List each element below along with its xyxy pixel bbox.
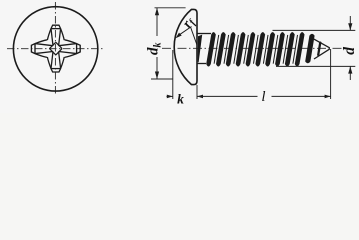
d arrows bbox=[348, 23, 352, 73]
head circle bbox=[13, 7, 97, 91]
k right extension line bbox=[196, 85, 198, 99]
d bottom extension line bbox=[276, 65, 355, 67]
svg-text:dk: dk bbox=[146, 43, 164, 56]
recess arm right bbox=[59, 40, 80, 58]
d top extension line bbox=[273, 29, 356, 31]
l dimension line bbox=[197, 95, 258, 97]
cone tip bbox=[313, 38, 330, 59]
recess side-view line bbox=[191, 27, 198, 45]
thread root line 4 bbox=[244, 35, 249, 64]
thread root line 2 bbox=[224, 35, 229, 64]
d_k top extension line bbox=[155, 7, 186, 9]
svg-text:l: l bbox=[261, 89, 265, 105]
thread crest stripe 8 bbox=[275, 32, 285, 66]
recess center diamond bbox=[50, 42, 63, 55]
phillips recess bbox=[31, 25, 80, 72]
thread: shank top/bottom edges bbox=[197, 34, 211, 64]
l right extension line bbox=[330, 49, 332, 99]
thread root line 3 bbox=[234, 35, 239, 64]
leader arrow r_f bbox=[176, 27, 192, 39]
d_k bottom extension line bbox=[151, 78, 173, 80]
thread crests and stripes bbox=[198, 32, 322, 66]
svg-text:d: d bbox=[341, 47, 358, 55]
centerline horizontal bbox=[7, 48, 105, 50]
thread crest stripe 3 bbox=[226, 32, 236, 66]
recess arm bottom bbox=[47, 51, 64, 72]
l right arrow bbox=[325, 95, 331, 99]
thread root line 1 bbox=[214, 35, 219, 64]
thread crest stripe 11 bbox=[305, 34, 314, 64]
svg-text:k: k bbox=[177, 92, 184, 107]
thread crest stripe on cone point bbox=[317, 41, 322, 55]
d_k arrows bbox=[155, 8, 159, 79]
axis centerline bbox=[162, 47, 346, 49]
thread crest stripe 6 bbox=[255, 32, 265, 66]
thread start partial stripe at head bbox=[198, 35, 203, 63]
k dimension tails bbox=[167, 95, 173, 97]
recess arm top bbox=[47, 25, 64, 46]
k arrows bbox=[167, 95, 203, 99]
centerline vertical bbox=[54, 2, 56, 96]
thread crest stripe 9 bbox=[285, 32, 295, 66]
k left extension line bbox=[172, 50, 174, 99]
d_k dimension line bbox=[156, 8, 158, 36]
thread crest stripe 10 bbox=[295, 32, 305, 66]
head outline side view bbox=[174, 9, 197, 84]
thread crest stripe 5 bbox=[246, 32, 256, 66]
thread root line 7 bbox=[273, 35, 278, 64]
thread root line 9 bbox=[293, 35, 298, 64]
thread crest stripe 2 bbox=[216, 32, 226, 66]
thread crest stripe 1 bbox=[206, 32, 216, 66]
svg-text:rf: rf bbox=[179, 13, 199, 31]
thread crest stripe 4 bbox=[236, 32, 246, 66]
thread root line 5 bbox=[254, 35, 259, 64]
thread root line 6 bbox=[263, 35, 268, 64]
recess arm left bbox=[31, 40, 52, 58]
thread root line 8 bbox=[283, 35, 288, 64]
thread crest stripe 7 bbox=[265, 32, 275, 66]
d dimension line pieces bbox=[349, 16, 351, 30]
